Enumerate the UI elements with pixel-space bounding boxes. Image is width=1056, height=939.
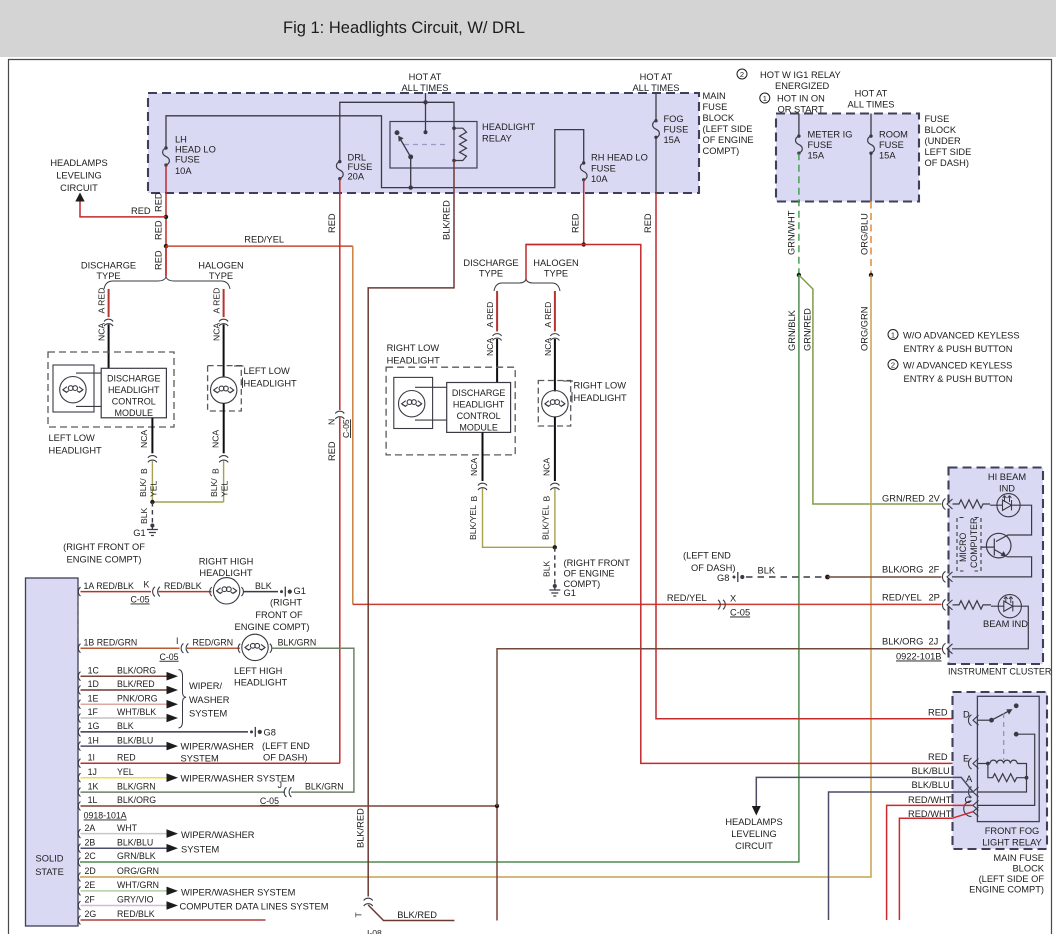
svg-text:1: 1 — [763, 94, 767, 103]
label: LEFT HIGH HEADLIGHT — [234, 666, 288, 688]
wire: RED horizontal feeding right low beams and fog relay E — [526, 245, 966, 764]
svg-text:HEADLAMPS: HEADLAMPS — [50, 158, 107, 168]
svg-text:RED: RED — [117, 752, 136, 762]
pin 1I — [78, 759, 80, 768]
wire 1A RED/BLK — [81, 591, 152, 593]
svg-text:FUSE: FUSE — [664, 125, 689, 135]
svg-text:CIRCUIT: CIRCUIT — [60, 183, 98, 193]
svg-text:HI BEAM: HI BEAM — [988, 472, 1026, 482]
halogen bulb dashed box (left) — [208, 366, 242, 411]
svg-text:1D: 1D — [88, 679, 99, 689]
svg-text:PNK/ORG: PNK/ORG — [117, 693, 158, 703]
label: DISCHARGE TYPE (left) — [81, 261, 136, 282]
svg-text:LEFT HIGH: LEFT HIGH — [234, 666, 282, 676]
note 1: W/O ADVANCED KEYLESS — [888, 330, 1020, 355]
label: RIGHT LOW HEADLIGHT (halogen) — [574, 381, 628, 404]
pin 1H — [78, 742, 80, 751]
svg-text:10A: 10A — [175, 166, 192, 176]
svg-text:RED: RED — [327, 213, 337, 233]
svg-text:BLK/ORG: BLK/ORG — [882, 565, 923, 575]
svg-text:LEVELING: LEVELING — [56, 171, 101, 181]
svg-text:BLOCK: BLOCK — [925, 125, 957, 135]
wire BLK dashed to ground G1 (right) — [554, 547, 556, 584]
svg-text:BLK/BLU: BLK/BLU — [117, 735, 153, 745]
svg-text:GRY/VIO: GRY/VIO — [117, 895, 154, 905]
svg-text:BLK: BLK — [139, 507, 149, 524]
wire BLK/YEL (left module) — [152, 461, 223, 502]
left low headlight (discharge) dashed box — [48, 352, 174, 427]
svg-text:W/ ADVANCED KEYLESS: W/ ADVANCED KEYLESS — [903, 361, 1012, 371]
svg-text:GRN/BLK: GRN/BLK — [117, 851, 156, 861]
svg-text:RED/GRN: RED/GRN — [193, 637, 234, 647]
svg-text:BLK/YEL: BLK/YEL — [541, 505, 551, 540]
svg-text:OF ENGINE: OF ENGINE — [564, 569, 615, 579]
svg-text:FUSE: FUSE — [808, 140, 833, 150]
svg-text:W/O ADVANCED KEYLESS: W/O ADVANCED KEYLESS — [903, 331, 1020, 341]
wire + connector B (right halogen) — [554, 417, 556, 481]
label: HALOGEN TYPE (left) — [198, 261, 243, 282]
pin 1L — [78, 802, 80, 811]
svg-text:GRN/WHT: GRN/WHT — [787, 210, 797, 255]
fuse block under dash — [776, 114, 919, 202]
svg-text:HEADLIGHT: HEADLIGHT — [199, 568, 253, 578]
module output wire + connector B (left) — [151, 418, 153, 454]
relay coil — [454, 128, 467, 160]
svg-text:LEVELING: LEVELING — [731, 829, 776, 839]
svg-text:METER IG: METER IG — [808, 130, 853, 140]
svg-text:TYPE: TYPE — [96, 271, 120, 281]
pin 1K — [78, 788, 80, 797]
label: HOT AT ALL TIMES (fog fuse feed) — [632, 72, 679, 93]
wire BLK/GRN from left high bulb to 1K loop — [272, 648, 354, 792]
fuse: LH HEAD LO FUSE 10A — [163, 146, 170, 167]
bulb: right high headlight — [210, 578, 244, 604]
label: RIGHT LOW HEADLIGHT (discharge) above box — [387, 343, 441, 366]
svg-text:SYSTEM: SYSTEM — [181, 754, 219, 764]
eyelet G1 (right high) — [280, 587, 292, 597]
svg-text:HALOGEN: HALOGEN — [533, 258, 578, 268]
fuse: METER IG FUSE 15A — [798, 114, 800, 137]
svg-text:2J: 2J — [929, 637, 939, 647]
wire: RED/YEL from junction to vertical — [166, 245, 353, 247]
svg-text:FUSE: FUSE — [348, 162, 373, 172]
svg-text:LEFT SIDE: LEFT SIDE — [925, 147, 972, 157]
main fuse block (engine compartment) — [148, 93, 699, 193]
pin 1G — [78, 727, 80, 736]
svg-text:YEL: YEL — [117, 767, 134, 777]
svg-text:RED: RED — [154, 192, 164, 212]
svg-text:LEFT LOW: LEFT LOW — [49, 433, 96, 443]
svg-text:C-05: C-05 — [341, 419, 351, 438]
svg-text:BLK/BLU: BLK/BLU — [117, 837, 153, 847]
svg-text:1A RED/BLK: 1A RED/BLK — [84, 581, 134, 591]
svg-text:ENTRY & PUSH BUTTON: ENTRY & PUSH BUTTON — [904, 374, 1013, 384]
headlamps leveling circuit arrow (bottom) — [752, 806, 761, 816]
svg-text:G8: G8 — [264, 728, 276, 738]
wire BLK/YEL (right module) — [483, 489, 555, 548]
bulb (right halogen) — [542, 391, 568, 417]
svg-text:ENGINE COMPT): ENGINE COMPT) — [235, 622, 310, 632]
label: MAIN FUSE BLOCK (LEFT SIDE OF ENGINE COMPT) bottom right — [969, 853, 1045, 895]
svg-text:BLK/GRN: BLK/GRN — [278, 637, 317, 647]
pin 2C — [78, 858, 80, 867]
wire: LH fuse top / relay switch output loop to RH fuse — [166, 116, 584, 188]
svg-text:B: B — [139, 468, 149, 474]
svg-text:CONTROL: CONTROL — [457, 411, 501, 421]
bulb (right discharge) — [399, 391, 425, 417]
pin 1F — [78, 714, 80, 723]
wire: DRL fuse top to relay coil — [340, 102, 454, 161]
module output wire + connector B (right) — [482, 432, 484, 481]
svg-text:OR START: OR START — [778, 105, 824, 115]
bulb housing box (right discharge) — [394, 377, 433, 428]
discharge headlight control module (left) — [101, 368, 166, 418]
svg-text:ORG/GRN: ORG/GRN — [860, 307, 870, 351]
svg-text:BLK/YEL: BLK/YEL — [468, 505, 478, 540]
label: (RIGHT FRONT OF ENGINE COMPT) left — [63, 542, 145, 565]
svg-text:HEADLIGHT: HEADLIGHT — [482, 122, 536, 132]
wire: RED stub to left brace — [165, 246, 167, 276]
note 2: HOT W IG1 RELAY ENERGIZED — [737, 69, 841, 91]
headlamps leveling circuit arrow (top left) — [75, 193, 84, 202]
svg-text:15A: 15A — [808, 151, 825, 161]
label HI BEAM IND — [988, 472, 1026, 494]
svg-text:ALL TIMES: ALL TIMES — [847, 100, 894, 110]
svg-text:HEADLIGHT: HEADLIGHT — [244, 379, 298, 389]
fog relay pin C — [964, 800, 979, 816]
svg-text:TYPE: TYPE — [209, 271, 233, 281]
svg-text:CONTROL: CONTROL — [112, 397, 156, 407]
svg-text:D: D — [963, 710, 970, 720]
svg-text:HEADLIGHT: HEADLIGHT — [234, 678, 288, 688]
svg-text:1H: 1H — [88, 735, 99, 745]
label: LEFT LOW HEADLIGHT (discharge) — [49, 433, 103, 456]
svg-text:SYSTEM: SYSTEM — [189, 709, 227, 719]
svg-text:YEL: YEL — [220, 481, 230, 497]
svg-text:RED: RED — [643, 213, 653, 233]
wire RED/WHT upper (pin C) — [887, 805, 973, 920]
svg-text:FRONT FOG: FRONT FOG — [985, 826, 1040, 836]
wire BLK dashed to ground G1 (left) — [151, 502, 153, 524]
svg-text:(LEFT SIDE OF: (LEFT SIDE OF — [979, 874, 1045, 884]
svg-text:MICRO: MICRO — [958, 533, 968, 562]
svg-text:WHT: WHT — [117, 823, 138, 833]
resistor (beam ind) — [953, 601, 992, 609]
connector X C-05 on RED/YEL — [718, 600, 725, 610]
svg-text:N: N — [327, 419, 337, 425]
svg-text:15A: 15A — [879, 151, 896, 161]
svg-text:C-05: C-05 — [730, 608, 750, 618]
wire GRN/WHT dashed — [798, 153, 800, 275]
svg-text:SOLID: SOLID — [36, 854, 64, 864]
wire: RED from RH fuse down to junction — [583, 180, 585, 245]
label: HOT AT ALL TIMES (room fuse) — [847, 89, 894, 110]
svg-text:ALL TIMES: ALL TIMES — [632, 83, 679, 93]
svg-text:(RIGHT: (RIGHT — [270, 598, 302, 608]
svg-text:1B RED/GRN: 1B RED/GRN — [84, 637, 138, 647]
svg-text:RED/YEL: RED/YEL — [882, 593, 922, 603]
svg-text:NCA: NCA — [210, 430, 220, 448]
svg-text:BLOCK: BLOCK — [703, 113, 735, 123]
bulb: left high headlight — [238, 634, 272, 660]
label: HALOGEN TYPE (right) — [533, 258, 578, 279]
cluster pin 2J — [942, 643, 952, 654]
svg-text:2C: 2C — [85, 851, 97, 861]
socket lines to module — [76, 373, 101, 406]
svg-text:0922-101B: 0922-101B — [896, 652, 942, 662]
note 2: W/ ADVANCED KEYLESS — [888, 360, 1013, 385]
svg-text:HEADLIGHT: HEADLIGHT — [387, 356, 441, 366]
wire BLK/YEL (right halogen) — [554, 489, 556, 548]
title bar — [0, 0, 1056, 57]
svg-text:C-05: C-05 — [131, 595, 150, 605]
svg-text:RED/WHT: RED/WHT — [908, 795, 952, 805]
svg-text:BLK: BLK — [541, 560, 551, 577]
svg-text:BLK/ORG: BLK/ORG — [117, 665, 156, 675]
svg-text:ENGINE COMPT): ENGINE COMPT) — [969, 885, 1044, 895]
svg-text:HEADLIGHT: HEADLIGHT — [574, 393, 628, 403]
svg-text:ORG/BLU: ORG/BLU — [860, 213, 870, 255]
wire transistor emitter to 2F pin — [952, 557, 1032, 577]
svg-text:RED: RED — [154, 220, 164, 240]
label: LEFT LOW HEADLIGHT (halogen) — [244, 366, 298, 389]
svg-text:FUSE: FUSE — [175, 155, 200, 165]
svg-text:BLK: BLK — [758, 566, 776, 576]
svg-text:ENERGIZED: ENERGIZED — [775, 81, 830, 91]
svg-text:BLK/ORG: BLK/ORG — [882, 637, 923, 647]
svg-text:C-05: C-05 — [160, 652, 179, 662]
svg-text:1: 1 — [891, 331, 895, 340]
svg-text:G1: G1 — [564, 588, 576, 598]
wire ROOM fuse bottom + ORG/BLU dashed — [870, 153, 872, 201]
fog relay switch — [978, 704, 1018, 736]
label: DISCHARGE TYPE (right) — [463, 258, 518, 279]
svg-text:BLK/ORG: BLK/ORG — [117, 795, 156, 805]
fog relay inner box — [977, 696, 1039, 821]
svg-text:HOT IN ON: HOT IN ON — [777, 94, 825, 104]
svg-text:HALOGEN: HALOGEN — [198, 261, 243, 271]
socket lines to module (right) — [415, 387, 447, 420]
cluster pin 2P — [942, 599, 952, 610]
brace wiper/washer 1C-1F — [179, 670, 187, 729]
svg-text:I: I — [176, 636, 178, 646]
label: FUSE BLOCK (UNDER LEFT SIDE OF DASH) — [925, 114, 972, 168]
wire 1B RED/GRN — [81, 647, 180, 649]
wire: DRL RED vertical to 1I with N C-05 connector — [339, 179, 341, 410]
svg-text:NCA: NCA — [212, 323, 222, 341]
svg-text:TYPE: TYPE — [544, 269, 568, 279]
svg-text:J: J — [278, 780, 282, 790]
wire BLK/BLU lower (pin A down off page) — [829, 792, 974, 920]
svg-text:2F: 2F — [929, 565, 940, 575]
svg-text:ENTRY & PUSH BUTTON: ENTRY & PUSH BUTTON — [904, 344, 1013, 354]
svg-text:Fig 1: Headlights Circuit, W/: Fig 1: Headlights Circuit, W/ DRL — [283, 19, 525, 37]
svg-text:RED/WHT: RED/WHT — [908, 809, 952, 819]
svg-text:0918-101A: 0918-101A — [84, 811, 127, 821]
fuse: FOG FUSE 15A — [653, 119, 660, 139]
svg-text:CIRCUIT: CIRCUIT — [735, 841, 773, 851]
branch: left discharge RED + connector A — [108, 289, 110, 317]
wire BLK/ORG up to cluster 2J row — [497, 649, 942, 806]
fog relay pin E — [968, 758, 978, 769]
svg-text:MAIN: MAIN — [703, 91, 726, 101]
wire: hot feed into relay — [425, 93, 427, 132]
svg-text:1L: 1L — [88, 795, 98, 805]
svg-text:T: T — [354, 912, 364, 918]
wire GRN/RED vertical to cluster 2V — [799, 275, 942, 504]
svg-text:C-05: C-05 — [260, 796, 279, 806]
bulb (left discharge) — [60, 377, 86, 403]
fuse: RH HEAD LO FUSE 10A — [580, 161, 587, 181]
svg-text:A RED: A RED — [485, 302, 495, 328]
svg-text:RELAY: RELAY — [482, 134, 512, 144]
svg-text:STATE: STATE — [35, 867, 64, 877]
svg-text:K: K — [144, 580, 150, 590]
svg-text:GRN/RED: GRN/RED — [882, 494, 925, 504]
front fog light relay dashed box — [953, 692, 1048, 849]
svg-text:I-08: I-08 — [367, 928, 382, 934]
svg-text:OF DASH): OF DASH) — [691, 563, 735, 573]
svg-text:COMPT): COMPT) — [703, 146, 740, 156]
pin 1B — [78, 644, 80, 653]
svg-text:B: B — [542, 496, 552, 502]
svg-text:COMPUTER DATA LINES SYSTEM: COMPUTER DATA LINES SYSTEM — [180, 902, 329, 912]
svg-text:HEADLAMPS: HEADLAMPS — [725, 817, 782, 827]
eyelet G8 — [250, 727, 262, 737]
pin 2B — [78, 844, 80, 853]
svg-text:RED/YEL: RED/YEL — [667, 593, 707, 603]
fuse: ROOM FUSE 15A — [870, 114, 872, 137]
svg-text:A: A — [966, 774, 973, 784]
svg-text:1E: 1E — [88, 693, 99, 703]
svg-text:G1: G1 — [294, 586, 306, 596]
svg-text:(LEFT SIDE: (LEFT SIDE — [703, 124, 753, 134]
svg-text:RED: RED — [928, 752, 948, 762]
wire ORG/GRN vertical to 2D row — [80, 275, 871, 877]
pin 1A — [78, 587, 80, 596]
svg-text:BLK/: BLK/ — [138, 478, 148, 497]
svg-text:NCA: NCA — [542, 458, 552, 476]
svg-text:ENGINE COMPT): ENGINE COMPT) — [67, 555, 142, 565]
wire: RED/YEL long horizontal to cluster — [353, 603, 942, 605]
svg-text:E: E — [963, 754, 969, 764]
svg-text:RED/YEL: RED/YEL — [244, 235, 284, 245]
svg-text:DISCHARGE: DISCHARGE — [463, 258, 518, 268]
svg-text:HOT AT: HOT AT — [855, 89, 888, 99]
fog relay coil + resistor — [978, 760, 1027, 792]
svg-text:(RIGHT FRONT: (RIGHT FRONT — [564, 558, 631, 568]
label: RIGHT HIGH HEADLIGHT — [199, 557, 254, 579]
svg-text:HEAD LO: HEAD LO — [175, 145, 216, 155]
svg-text:DISCHARGE: DISCHARGE — [81, 261, 136, 271]
connector dashes between pins 1A-1B — [77, 597, 79, 643]
svg-text:ORG/GRN: ORG/GRN — [117, 866, 159, 876]
ground G1 (left engine compt) — [147, 524, 158, 535]
fog relay pin A — [968, 787, 978, 798]
svg-text:(LEFT END: (LEFT END — [262, 741, 310, 751]
pin 1C — [78, 672, 80, 681]
note 1: HOT IN ON OR START — [760, 93, 825, 115]
svg-text:C: C — [965, 795, 972, 805]
svg-text:WIPER/WASHER: WIPER/WASHER — [181, 830, 255, 840]
svg-text:LIGHT RELAY: LIGHT RELAY — [982, 838, 1042, 848]
pin 2F — [78, 901, 80, 910]
svg-text:RED: RED — [571, 213, 581, 233]
wire: BLK/RED from relay coil down — [368, 161, 454, 897]
cluster pin 2F — [942, 571, 952, 582]
svg-text:FRONT OF: FRONT OF — [255, 610, 303, 620]
svg-text:BLK/: BLK/ — [209, 478, 219, 497]
svg-text:RIGHT HIGH: RIGHT HIGH — [199, 557, 254, 567]
svg-text:MODULE: MODULE — [115, 408, 154, 418]
svg-text:BLK/RED: BLK/RED — [442, 200, 452, 240]
svg-text:BLK/RED: BLK/RED — [397, 910, 437, 920]
svg-text:DISCHARGE: DISCHARGE — [452, 388, 506, 398]
svg-text:1G: 1G — [88, 721, 100, 731]
svg-text:G1: G1 — [133, 528, 145, 538]
svg-text:OF DASH): OF DASH) — [263, 753, 307, 763]
relay switch — [395, 131, 412, 188]
wire: fog fuse bottom inside block — [655, 137, 657, 193]
wire: fog fuse feed from top — [655, 93, 657, 121]
relay internal dashed link — [404, 144, 449, 146]
svg-text:SYSTEM: SYSTEM — [181, 845, 219, 855]
svg-text:INSTRUMENT CLUSTER: INSTRUMENT CLUSTER — [948, 667, 1052, 677]
svg-text:1K: 1K — [88, 781, 99, 791]
svg-text:DISCHARGE: DISCHARGE — [107, 374, 161, 384]
svg-text:GRN/BLK: GRN/BLK — [787, 309, 797, 351]
svg-text:BLK: BLK — [255, 581, 272, 591]
svg-text:2B: 2B — [85, 837, 96, 847]
brace left (discharge/halogen split LH) — [104, 277, 230, 289]
wire: RED/YEL vertical — [352, 246, 354, 604]
svg-text:BLK/BLU: BLK/BLU — [912, 780, 950, 790]
pin 1E — [78, 700, 80, 709]
svg-text:ALL TIMES: ALL TIMES — [401, 83, 448, 93]
branch: right discharge RED + connector A — [496, 291, 498, 331]
svg-text:NCA: NCA — [485, 338, 495, 356]
svg-text:OF DASH): OF DASH) — [925, 158, 969, 168]
svg-text:RED/BLK: RED/BLK — [164, 581, 202, 591]
connector on BLK/RED at bottom — [364, 898, 373, 906]
svg-text:FUSE: FUSE — [703, 102, 728, 112]
svg-text:1C: 1C — [88, 665, 100, 675]
wire BLK after right high bulb — [244, 591, 279, 593]
svg-text:HEADLIGHT: HEADLIGHT — [453, 400, 505, 410]
svg-text:IND: IND — [999, 484, 1015, 494]
svg-text:WIPER/WASHER SYSTEM: WIPER/WASHER SYSTEM — [181, 888, 295, 898]
svg-text:FUSE: FUSE — [591, 164, 616, 174]
svg-text:(UNDER: (UNDER — [925, 136, 961, 146]
svg-text:BLK/GRN: BLK/GRN — [117, 781, 156, 791]
svg-text:RED: RED — [928, 708, 948, 718]
svg-text:B: B — [210, 468, 220, 474]
halogen bulb dashed box (right) — [538, 381, 570, 427]
LED hi beam ind — [990, 494, 1020, 517]
svg-text:GRN/RED: GRN/RED — [803, 308, 813, 351]
pin 2G — [78, 916, 80, 925]
svg-text:10A: 10A — [591, 174, 608, 184]
svg-text:LH: LH — [175, 135, 187, 145]
svg-text:RED/BLK: RED/BLK — [117, 909, 155, 919]
svg-text:WIPER/: WIPER/ — [189, 681, 222, 691]
svg-text:FOG: FOG — [664, 114, 684, 124]
wire: RED from fog fuse down to relay pin D — [656, 193, 966, 719]
wire BLK/RED diagonal to right at bottom — [368, 905, 454, 921]
svg-text:(LEFT END: (LEFT END — [683, 551, 731, 561]
svg-text:BLK: BLK — [117, 721, 134, 731]
svg-text:HEADLIGHT: HEADLIGHT — [49, 446, 103, 456]
